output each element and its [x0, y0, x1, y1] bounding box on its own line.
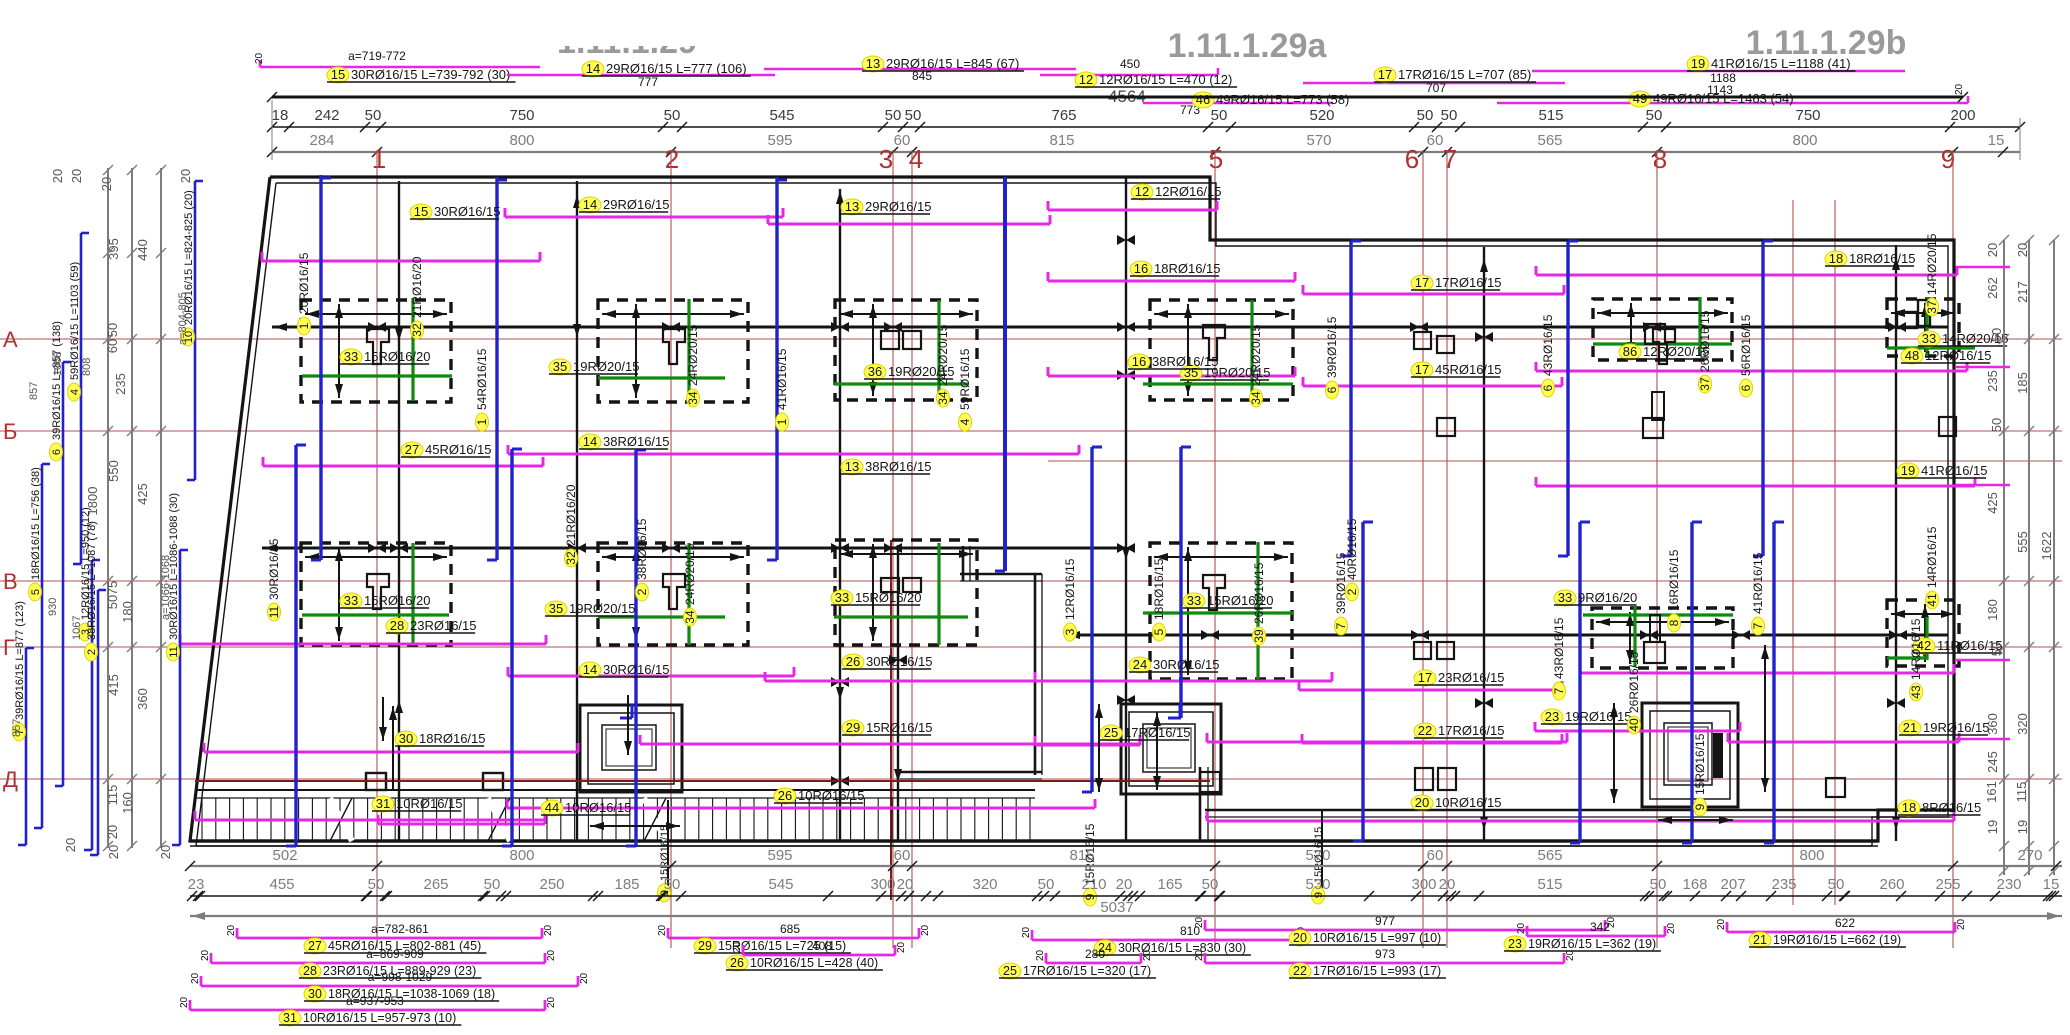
- svg-text:50: 50: [365, 107, 382, 124]
- svg-text:12RØ16/15 L=470 (12): 12RØ16/15 L=470 (12): [1099, 72, 1232, 87]
- plan label 16 38RØ16/15: [1128, 354, 1219, 370]
- svg-text:20: 20: [897, 876, 914, 893]
- rotated label 2 40RØ16/15: [1345, 518, 1359, 601]
- svg-text:43: 43: [1909, 685, 1923, 699]
- svg-text:19: 19: [1691, 56, 1705, 71]
- blue rebar line 1: [311, 175, 331, 560]
- rebar line 12: [1048, 201, 1217, 210]
- svg-text:24RØ20/15: 24RØ20/15: [936, 324, 950, 386]
- dashed footing box L1: [301, 543, 451, 645]
- svg-text:2: 2: [635, 588, 649, 595]
- blue hook elevator2: [1168, 704, 1180, 718]
- plan label 33 15RØ16/20: [1183, 593, 1274, 609]
- svg-text:26: 26: [730, 956, 744, 970]
- plan label 14 38RØ16/15: [579, 434, 670, 450]
- title 1.11.1.29 (clipped): [530, 14, 730, 61]
- svg-text:14: 14: [583, 434, 597, 449]
- column U5b square: [1645, 324, 1665, 344]
- svg-text:50: 50: [885, 107, 902, 124]
- rotated label 11 30RØ16/15: [267, 538, 281, 621]
- wall pillar stairs 1: [366, 773, 386, 790]
- svg-text:7: 7: [1751, 622, 1765, 629]
- svg-text:23RØ16/15: 23RØ16/15: [410, 618, 477, 633]
- square pair axis6-7 corridor: [1415, 768, 1456, 790]
- svg-text:20: 20: [1985, 243, 2000, 257]
- blue rebar line 14: [1682, 522, 1702, 843]
- bottom dimension row 1: [185, 847, 2062, 871]
- svg-text:815: 815: [1049, 132, 1074, 149]
- svg-text:27: 27: [308, 939, 322, 953]
- blue rebar line 9: [626, 450, 646, 846]
- rebar line 17r: [1299, 681, 1562, 690]
- svg-text:20: 20: [657, 924, 668, 936]
- svg-text:20: 20: [105, 825, 120, 839]
- corridor wall right section: [1205, 810, 1954, 817]
- column U2: [663, 329, 685, 364]
- svg-text:20: 20: [920, 924, 931, 936]
- svg-text:502: 502: [272, 847, 297, 864]
- blue hook elevator1: [620, 704, 632, 718]
- rotated label 34 24RØ20/15: [686, 324, 700, 407]
- svg-text:28: 28: [390, 618, 404, 633]
- dashed footing box U4: [1150, 300, 1293, 400]
- svg-text:20: 20: [200, 949, 211, 961]
- svg-text:Д: Д: [3, 767, 18, 792]
- svg-text:10RØ16/15 L=428 (40): 10RØ16/15 L=428 (40): [750, 956, 878, 970]
- svg-text:Б: Б: [3, 419, 17, 444]
- rotated label 1 20RØ16/15: [297, 252, 311, 335]
- svg-text:14RØ20/15: 14RØ20/15: [1925, 233, 1939, 295]
- svg-text:20: 20: [179, 996, 190, 1008]
- green rebar cross 3: [834, 300, 968, 400]
- rebar line 18b: [1207, 812, 1954, 821]
- svg-text:320: 320: [2015, 713, 2030, 735]
- rotated label 9 15RØ16/15: [1083, 823, 1097, 906]
- svg-text:24: 24: [1133, 657, 1147, 672]
- svg-text:15RØ16/15: 15RØ16/15: [1693, 733, 1707, 795]
- rebar line 14: [505, 208, 783, 217]
- svg-text:6: 6: [1739, 384, 1753, 391]
- svg-text:37: 37: [1698, 377, 1712, 391]
- svg-text:40: 40: [1627, 718, 1641, 732]
- plan label 35 19RØ20/15: [545, 601, 636, 617]
- svg-text:15: 15: [414, 204, 428, 219]
- svg-text:26: 26: [846, 654, 860, 669]
- svg-text:765: 765: [1051, 107, 1076, 124]
- svg-text:50: 50: [1211, 107, 1228, 124]
- rebar line 31: [195, 811, 545, 820]
- svg-text:41: 41: [1925, 593, 1939, 607]
- rebar line 25m: [1035, 736, 1140, 745]
- left margin rebar 10: [182, 181, 204, 480]
- green rebar cross 6: [1887, 297, 1975, 356]
- svg-text:50: 50: [664, 876, 681, 893]
- svg-text:360: 360: [135, 688, 150, 710]
- svg-text:33: 33: [1187, 593, 1201, 608]
- svg-text:210: 210: [1081, 876, 1106, 893]
- svg-text:22: 22: [1293, 964, 1307, 978]
- svg-text:50: 50: [105, 595, 120, 609]
- svg-text:10RØ16/15: 10RØ16/15: [1435, 795, 1502, 810]
- svg-text:17RØ16/15 L=320 (17): 17RØ16/15 L=320 (17): [1023, 964, 1151, 978]
- building outline walls: [190, 177, 1954, 846]
- svg-text:29RØ16/15: 29RØ16/15: [603, 197, 670, 212]
- rebar line 16: [1048, 272, 1295, 281]
- svg-text:41RØ16/15: 41RØ16/15: [1751, 552, 1765, 614]
- svg-text:707: 707: [1426, 81, 1446, 95]
- plan label 33 15RØ16/20: [340, 349, 431, 365]
- rebar line 21: [1728, 733, 1959, 742]
- svg-text:12: 12: [1079, 72, 1093, 87]
- svg-text:34: 34: [936, 391, 950, 405]
- svg-text:242: 242: [314, 107, 339, 124]
- footing L6 dimension arrows: [1891, 604, 1955, 662]
- rebar line 17b: [1536, 362, 1967, 371]
- green rebar cross 7: [302, 543, 449, 645]
- schedule line 28: [200, 947, 557, 979]
- schedule line 21: [1716, 916, 1967, 948]
- svg-text:50: 50: [1989, 642, 2004, 656]
- svg-text:32: 32: [564, 551, 578, 565]
- maroon rebar vertical x891: [890, 540, 892, 900]
- svg-text:342: 342: [1590, 920, 1610, 934]
- svg-text:235: 235: [1985, 370, 2000, 392]
- rotated label 7 39RØ16/15: [1334, 552, 1348, 635]
- svg-text:5: 5: [1209, 144, 1223, 174]
- plan label 35 19RØ20/15: [549, 359, 640, 375]
- svg-text:395: 395: [106, 238, 121, 260]
- title 1.11.1.29a: [1168, 27, 1328, 65]
- green rebar cross 2: [598, 299, 725, 400]
- svg-text:19: 19: [1901, 463, 1915, 478]
- rebar line 17: [1303, 285, 1564, 294]
- svg-text:25: 25: [1104, 725, 1118, 740]
- svg-text:6: 6: [1541, 384, 1555, 391]
- plan label 14 29RØ16/15: [579, 197, 670, 213]
- label 13 top: [862, 56, 1024, 72]
- svg-text:30RØ16/15: 30RØ16/15: [434, 204, 501, 219]
- dashed footing box U5: [1593, 299, 1732, 360]
- svg-text:18: 18: [272, 107, 289, 124]
- single square x1643: [1643, 392, 1664, 438]
- svg-text:39RØ16/15 L=857 (138): 39RØ16/15 L=857 (138): [51, 321, 63, 440]
- plan label 13 38RØ16/15: [841, 459, 932, 475]
- svg-text:14RØ16/15: 14RØ16/15: [1925, 526, 1939, 588]
- dashed footing box L3: [835, 540, 977, 645]
- axis letters left: [3, 327, 18, 792]
- svg-text:1068: 1068: [52, 352, 64, 376]
- plan label 21 19RØ16/15: [1899, 720, 1990, 736]
- heavy vertical line x1126: [1117, 177, 1135, 841]
- rotated label 7 43RØ16/15: [1552, 617, 1566, 700]
- plan label 25 17RØ16/15: [1100, 725, 1191, 741]
- column U3 squares: [881, 331, 921, 349]
- svg-text:622: 622: [1835, 916, 1855, 930]
- svg-text:440: 440: [135, 239, 150, 261]
- heavy vertical line x898: [889, 545, 907, 841]
- footing U5 dimension arrows: [1597, 303, 1728, 356]
- plan label 30 18RØ16/15: [395, 731, 486, 747]
- svg-text:39: 39: [1252, 629, 1266, 643]
- svg-text:38RØ16/15: 38RØ16/15: [865, 459, 932, 474]
- rebar schedule line 19 top: [1532, 71, 1905, 97]
- svg-text:17RØ16/15: 17RØ16/15: [1438, 723, 1505, 738]
- svg-text:7: 7: [1443, 144, 1457, 174]
- svg-text:59RØ16/15: 59RØ16/15: [958, 348, 972, 410]
- svg-text:50: 50: [905, 107, 922, 124]
- svg-text:21: 21: [1753, 933, 1767, 947]
- svg-text:28: 28: [303, 964, 317, 978]
- svg-text:8RØ16/15: 8RØ16/15: [1922, 800, 1981, 815]
- top border dim line: [267, 92, 1968, 102]
- elevator shaft 2: [1121, 704, 1221, 794]
- svg-text:8: 8: [1653, 144, 1667, 174]
- svg-text:18RØ16/15 L=756 (38): 18RØ16/15 L=756 (38): [30, 467, 42, 580]
- svg-text:20: 20: [1035, 949, 1046, 961]
- svg-text:31: 31: [283, 1011, 297, 1025]
- svg-text:20: 20: [63, 838, 78, 852]
- svg-text:36: 36: [868, 364, 882, 379]
- svg-text:20RØ16/15: 20RØ16/15: [297, 252, 311, 314]
- plan label 18 18RØ16/15: [1825, 251, 1916, 267]
- svg-text:46: 46: [1196, 92, 1210, 107]
- svg-text:800: 800: [1792, 132, 1817, 149]
- plan label 44 10RØ16/15: [541, 800, 632, 816]
- vertical double arrow x1765: [1761, 645, 1769, 792]
- rebar line 26: [1207, 733, 1567, 742]
- core wall horizontal: [960, 574, 1042, 581]
- blue rebar line 7: [286, 445, 306, 846]
- heavy span line row A: [272, 322, 1948, 332]
- heavy vertical line x1484: [1475, 247, 1493, 841]
- plan label 33 14RØ20/15: [1918, 331, 2009, 347]
- plan label 13 29RØ16/15: [841, 199, 932, 215]
- rebar line 44: [507, 799, 1095, 808]
- core wall bottom: [900, 772, 1042, 779]
- svg-text:20: 20: [546, 996, 557, 1008]
- svg-text:270: 270: [2017, 847, 2042, 864]
- svg-text:800: 800: [509, 132, 534, 149]
- svg-text:19RØ16/15 L=362 (19): 19RØ16/15 L=362 (19): [1528, 937, 1656, 951]
- svg-text:857: 857: [11, 719, 23, 737]
- svg-text:15: 15: [331, 67, 345, 82]
- svg-text:35: 35: [553, 359, 567, 374]
- rotated label 32 21RØ16/20: [410, 256, 424, 339]
- plan label 15 30RØ16/15: [410, 204, 501, 220]
- svg-text:32: 32: [410, 323, 424, 337]
- plan label 48 12RØ16/15: [1901, 348, 1992, 364]
- wall pillar stairs 2: [483, 773, 503, 790]
- svg-text:5037: 5037: [1100, 899, 1133, 916]
- svg-text:16RØ16/15: 16RØ16/15: [1667, 549, 1681, 611]
- plan label 36 19RØ20/15: [864, 364, 955, 380]
- rotated label 37 14RØ20/15: [1925, 233, 1939, 316]
- dashed footing box U6: [1887, 299, 1959, 356]
- footing L2 dimension arrows: [602, 547, 744, 641]
- core wall vertical 2: [1035, 574, 1042, 775]
- svg-text:24RØ20/15: 24RØ20/15: [1249, 324, 1263, 386]
- svg-text:50: 50: [1417, 107, 1434, 124]
- svg-text:20: 20: [1954, 83, 1965, 95]
- svg-text:168: 168: [1682, 876, 1707, 893]
- footing L4 dimension arrows: [1154, 547, 1288, 675]
- rebar line 16b: [1048, 367, 1295, 376]
- svg-text:33: 33: [835, 590, 849, 605]
- svg-text:50: 50: [1989, 418, 2004, 432]
- svg-text:14: 14: [583, 662, 597, 677]
- vertical arrow x628: [624, 695, 632, 755]
- rotated label 34 24RØ20/15: [1249, 324, 1263, 407]
- left dimension chains: [103, 165, 166, 851]
- rebar line 22r: [1302, 734, 1562, 743]
- svg-text:4: 4: [958, 418, 972, 425]
- svg-text:14: 14: [583, 197, 597, 212]
- svg-text:49RØ16/15 L=773 (58): 49RØ16/15 L=773 (58): [1216, 92, 1349, 107]
- plan label 29 15RØ16/15: [842, 720, 933, 736]
- svg-text:425: 425: [135, 483, 150, 505]
- svg-text:180: 180: [120, 601, 135, 623]
- svg-text:515: 515: [1537, 876, 1562, 893]
- svg-text:857: 857: [28, 382, 40, 400]
- red line y461 right part: [1048, 460, 2062, 462]
- svg-text:31: 31: [376, 796, 390, 811]
- svg-text:185: 185: [2015, 372, 2030, 394]
- svg-text:39RØ16/15: 39RØ16/15: [1325, 316, 1339, 378]
- svg-text:20: 20: [69, 169, 84, 183]
- svg-text:6: 6: [1405, 144, 1419, 174]
- svg-text:17: 17: [1415, 275, 1429, 290]
- svg-text:А: А: [3, 327, 18, 352]
- svg-text:a=719-772: a=719-772: [348, 49, 406, 63]
- svg-text:21RØ16/20: 21RØ16/20: [564, 484, 578, 546]
- blue rebar line 15: [1764, 522, 1784, 843]
- svg-text:18RØ16/15: 18RØ16/15: [1152, 558, 1166, 620]
- svg-text:5: 5: [1152, 628, 1166, 635]
- svg-text:20: 20: [158, 845, 173, 859]
- svg-text:15RØ16/15: 15RØ16/15: [659, 825, 671, 881]
- plan label 33 15RØ16/20: [340, 593, 431, 609]
- svg-text:21: 21: [1903, 720, 1917, 735]
- svg-text:235: 235: [113, 373, 128, 395]
- column L4: [1203, 575, 1225, 610]
- svg-text:50: 50: [664, 107, 681, 124]
- svg-text:19RØ16/15: 19RØ16/15: [1565, 709, 1632, 724]
- svg-text:15RØ16/20: 15RØ16/20: [855, 590, 922, 605]
- svg-text:17: 17: [1415, 362, 1429, 377]
- svg-text:320: 320: [972, 876, 997, 893]
- svg-text:15RØ16/20: 15RØ16/20: [364, 349, 431, 364]
- extra red verticals right: [1793, 200, 1835, 905]
- svg-text:38RØ16/15 L=1087 (78): 38RØ16/15 L=1087 (78): [86, 521, 98, 640]
- svg-text:545: 545: [769, 107, 794, 124]
- column U4: [1203, 325, 1225, 360]
- svg-text:26RØ16/15: 26RØ16/15: [1252, 562, 1266, 624]
- svg-text:800: 800: [509, 847, 534, 864]
- rotated label 7 41RØ16/15: [1751, 552, 1765, 635]
- horizontal axis grid lines A-D: [0, 339, 2062, 779]
- green rebar cross 5: [1593, 297, 1732, 356]
- blue rebar line thick x1005: [995, 177, 1005, 571]
- svg-text:33: 33: [1558, 590, 1572, 605]
- column bits far right: [1897, 300, 1930, 328]
- label 46: [1192, 92, 1349, 108]
- green rebar cross 11: [1583, 606, 1733, 667]
- svg-text:17: 17: [1378, 67, 1392, 82]
- plan label 14 30RØ16/15: [579, 662, 670, 678]
- heavy span line row B right: [1065, 630, 1948, 640]
- dashed footing box U3: [835, 300, 977, 400]
- rotated label 1 54RØ16/15: [475, 348, 489, 431]
- svg-text:13: 13: [845, 459, 859, 474]
- square pair axis6-7 row B: [1414, 642, 1454, 659]
- svg-text:115: 115: [105, 785, 120, 806]
- plan label 26 10RØ16/15: [774, 788, 865, 804]
- svg-text:12RØ16/15: 12RØ16/15: [1925, 348, 1992, 363]
- vertical arrow x1099: [1095, 704, 1103, 792]
- single square x1437: [1437, 418, 1455, 436]
- rebar line 27: [263, 457, 543, 466]
- schedule line 24: [1021, 924, 1307, 956]
- dashed footing box L6: [1887, 600, 1959, 666]
- svg-text:19RØ20/15: 19RØ20/15: [573, 359, 640, 374]
- svg-text:808: 808: [81, 358, 93, 376]
- svg-text:20: 20: [579, 972, 590, 984]
- svg-text:26RØ16/15: 26RØ16/15: [1627, 651, 1641, 713]
- schedule line 25: [999, 947, 1156, 979]
- svg-text:30RØ16/15: 30RØ16/15: [267, 538, 281, 600]
- svg-text:161: 161: [1984, 781, 1999, 803]
- short vertical with label 9b: [658, 800, 672, 902]
- svg-text:41RØ16/15: 41RØ16/15: [775, 348, 789, 410]
- plan label 42 11RØ16/15: [1913, 638, 2003, 654]
- column U1: [367, 329, 389, 364]
- svg-text:360: 360: [1985, 713, 2000, 735]
- svg-text:20: 20: [546, 949, 557, 961]
- rotated label 43 14RØ16/15: [1909, 618, 1923, 701]
- svg-text:30RØ16/15 L=739-792 (30): 30RØ16/15 L=739-792 (30): [351, 67, 510, 82]
- schedule line 29: [657, 922, 931, 954]
- svg-text:30: 30: [308, 987, 322, 1001]
- svg-text:20: 20: [732, 941, 743, 953]
- svg-text:2: 2: [1345, 588, 1359, 595]
- svg-text:27: 27: [405, 442, 419, 457]
- rebar line 14c: [508, 667, 794, 676]
- rebar line 15: [262, 252, 540, 261]
- svg-text:800: 800: [1799, 847, 1824, 864]
- svg-text:21RØ16/20: 21RØ16/20: [410, 256, 424, 318]
- svg-text:50: 50: [1038, 876, 1055, 893]
- svg-text:30RØ16/15: 30RØ16/15: [603, 662, 670, 677]
- svg-text:25: 25: [1003, 964, 1017, 978]
- double arrow under elevator1: [590, 822, 680, 830]
- column L1: [367, 574, 389, 609]
- svg-text:50: 50: [105, 323, 120, 337]
- dimension chain row B (top): [267, 132, 2020, 157]
- svg-text:115: 115: [2014, 782, 2029, 803]
- svg-text:24RØ20/15: 24RØ20/15: [686, 324, 700, 386]
- svg-text:20: 20: [1415, 795, 1429, 810]
- svg-text:10RØ16/15 L=997 (10): 10RØ16/15 L=997 (10): [1313, 931, 1441, 945]
- elevator shaft 1: [580, 705, 682, 792]
- heavy vertical line x1896: [1887, 245, 1905, 841]
- svg-text:15RØ16/15: 15RØ16/15: [866, 720, 933, 735]
- label 12 top: [1075, 72, 1237, 88]
- blue rebar line 2: [487, 177, 507, 560]
- schedule line 20: [1194, 914, 1617, 946]
- svg-text:1: 1: [775, 418, 789, 425]
- svg-text:300: 300: [870, 876, 895, 893]
- dimension chain row A (top): [267, 107, 2025, 132]
